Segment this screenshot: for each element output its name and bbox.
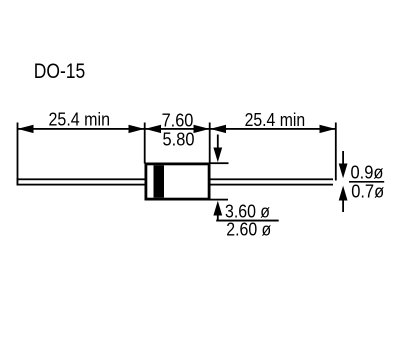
svg-text:25.4 min: 25.4 min [245, 110, 306, 130]
svg-text:7.60: 7.60 [162, 110, 194, 130]
svg-text:2.60 ø: 2.60 ø [226, 219, 271, 239]
svg-text:DO-15: DO-15 [34, 60, 86, 83]
svg-text:0.7ø: 0.7ø [351, 182, 384, 202]
svg-text:5.80: 5.80 [163, 129, 195, 149]
svg-text:25.4 min: 25.4 min [49, 110, 111, 130]
svg-text:0.9ø: 0.9ø [351, 163, 384, 183]
